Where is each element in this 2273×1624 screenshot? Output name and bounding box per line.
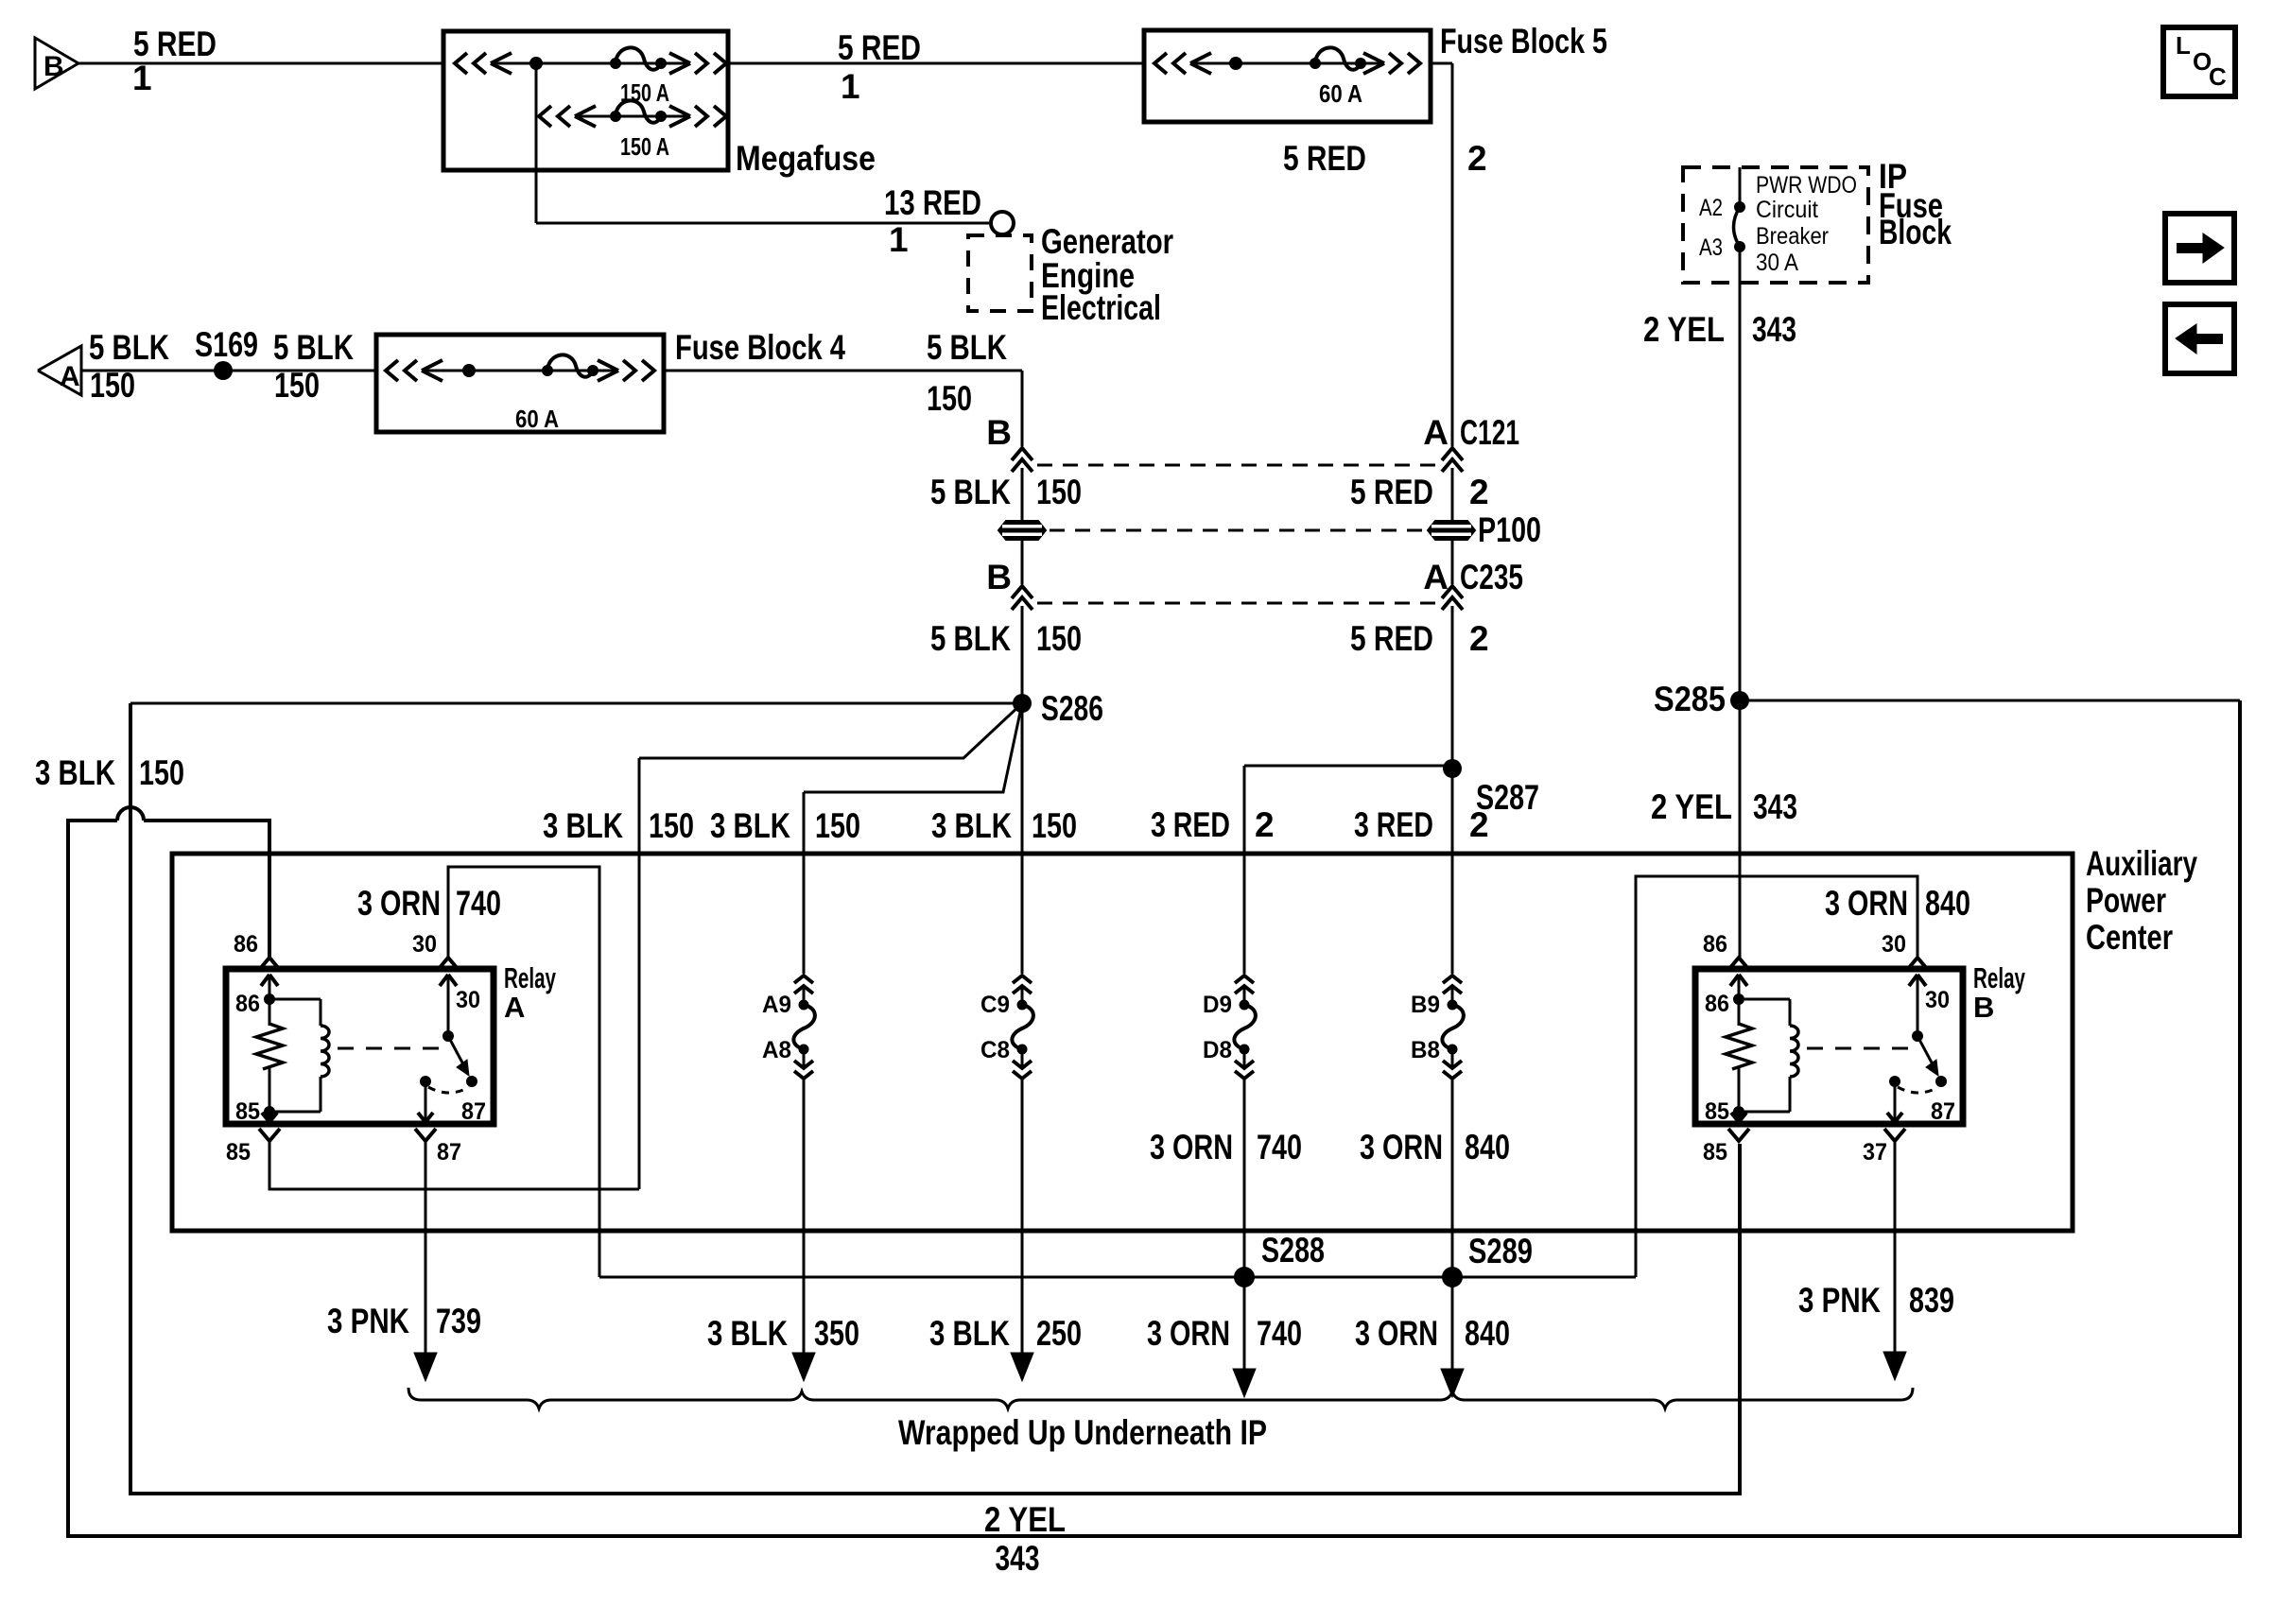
svg-text:A9: A9 xyxy=(762,992,791,1018)
fuse A9/A8 terminal arrow and connector chevron bottom xyxy=(794,1049,813,1079)
relay B dashed actuation link xyxy=(1807,1047,1910,1050)
splice S288 xyxy=(1234,1267,1255,1287)
svg-text:840: 840 xyxy=(1925,884,1970,923)
svg-text:B: B xyxy=(43,51,64,82)
relay A contact 87 with dashed travel arc xyxy=(418,1076,469,1122)
relay A internal labels 86 85 30 87 xyxy=(235,987,486,1125)
wire 5 RED circuit 1 from Megafuse to Fuse Block 5 xyxy=(728,62,1144,65)
relay B pin 30 connector chevron xyxy=(1907,958,1928,970)
svg-text:A: A xyxy=(504,991,525,1024)
splice S289 xyxy=(1442,1267,1463,1287)
label Auxiliary Power Center xyxy=(2086,844,2197,957)
svg-text:C8: C8 xyxy=(980,1037,1010,1063)
connector C121 pin B chevrons xyxy=(1012,448,1032,472)
label 3 RED / 2 (D column) xyxy=(1151,805,1275,844)
svg-text:L: L xyxy=(2176,31,2191,60)
arrow down 3 ORN 740 xyxy=(1233,1369,1256,1397)
label 3 ORN / 840 (above S289) xyxy=(1360,1128,1510,1166)
svg-text:85: 85 xyxy=(226,1139,251,1166)
svg-text:Megafuse: Megafuse xyxy=(736,139,876,178)
svg-text:150: 150 xyxy=(1036,473,1082,511)
svg-text:840: 840 xyxy=(1465,1128,1510,1166)
svg-text:150: 150 xyxy=(139,753,184,792)
svg-text:150: 150 xyxy=(927,379,972,418)
svg-text:3 ORN: 3 ORN xyxy=(1150,1128,1233,1166)
svg-text:D9: D9 xyxy=(1203,992,1232,1018)
svg-text:87: 87 xyxy=(437,1139,461,1166)
svg-text:D8: D8 xyxy=(1203,1037,1232,1063)
svg-text:2 YEL: 2 YEL xyxy=(1651,787,1732,826)
labels 85 / 87 below relay A xyxy=(226,1139,461,1166)
svg-text:3 ORN: 3 ORN xyxy=(1360,1128,1443,1166)
label 5 RED / 2 xyxy=(1283,139,1487,178)
label S289 xyxy=(1468,1232,1533,1270)
label 5 RED / 1 xyxy=(132,25,217,97)
svg-text:B9: B9 xyxy=(1411,992,1440,1018)
label S288 xyxy=(1261,1231,1325,1270)
label 3 BLK / 150 (left rail) xyxy=(35,753,184,792)
svg-text:37: 37 xyxy=(1863,1139,1887,1166)
svg-text:S285: S285 xyxy=(1654,680,1726,718)
fuse C9/C8 terminal arrow and connector chevron bottom xyxy=(1013,1049,1032,1079)
fuse B9/B8 connector chevron and terminal arrow top xyxy=(1443,976,1462,1001)
relay A pin 30 connector chevron xyxy=(438,958,459,970)
svg-text:86: 86 xyxy=(235,991,260,1017)
P100 dashed tie line xyxy=(1050,529,1424,532)
fuse B9/B8 terminal arrow and connector chevron bottom xyxy=(1443,1049,1462,1079)
svg-text:3 PNK: 3 PNK xyxy=(327,1302,409,1340)
wire 3 ORN 840 relay B pin 30 feed xyxy=(1636,876,1917,1277)
label 3 ORN / 840 (relay B feed) xyxy=(1825,884,1970,923)
wire 3 BLK 150 ground bus from S286 left to frame rail xyxy=(130,702,1022,705)
Megafuse box xyxy=(443,31,728,170)
label 150 A (top fuse) xyxy=(620,78,669,107)
megafuse element 150 A top row with terminals xyxy=(455,47,726,74)
svg-text:Generator: Generator xyxy=(1041,222,1173,261)
svg-text:739: 739 xyxy=(436,1302,481,1340)
labels B / A / C121 xyxy=(986,413,1519,452)
svg-text:86: 86 xyxy=(234,931,258,958)
connector C235 pin A chevrons xyxy=(1442,586,1463,610)
label P100 xyxy=(1478,510,1541,549)
relay B name label xyxy=(1973,961,2025,1024)
svg-text:Relay: Relay xyxy=(504,961,556,994)
labels B9 / B8 xyxy=(1411,992,1440,1063)
wire 5 BLK 150 from C235-B to splice S286 xyxy=(1021,606,1024,703)
label S285 xyxy=(1654,680,1726,718)
labels D9 / D8 xyxy=(1203,992,1232,1063)
wire 5 BLK 150 from C121-B to grommet P100 xyxy=(1021,468,1024,521)
labels 3 BLK / 150 (three pairs) xyxy=(543,806,1077,845)
relay A switch common 30 xyxy=(440,975,457,1042)
S286 branch to A column (3 BLK 150) xyxy=(804,703,1022,974)
svg-text:3 PNK: 3 PNK xyxy=(1798,1281,1881,1320)
wire 5 RED circuit 1 from triangle B to Megafuse xyxy=(78,62,443,65)
wire 5 BLK 150 from P100 to C235-B xyxy=(1021,540,1024,584)
splice S285 xyxy=(1730,691,1749,710)
svg-text:30: 30 xyxy=(1882,931,1906,958)
2 YEL 343 loop (right/bottom/left rails to relay A pin 86) xyxy=(68,700,2240,1536)
relay A coil winding xyxy=(269,999,329,1112)
arrow down 3 PNK 739 xyxy=(414,1353,437,1381)
wire 5 RED 2 from C121-A to grommet P100 xyxy=(1451,468,1454,521)
svg-text:3 ORN: 3 ORN xyxy=(357,884,441,923)
wire 2 YEL 343 from S285 to right rail xyxy=(1740,700,2240,702)
svg-text:150 A: 150 A xyxy=(620,132,669,161)
svg-text:3 BLK: 3 BLK xyxy=(35,753,115,792)
connector C121 dashed tie line xyxy=(1037,464,1438,467)
fuse element B9-B8 xyxy=(1442,1000,1464,1055)
svg-text:30 A: 30 A xyxy=(1756,250,1798,276)
labels 85 / 37 below relay B xyxy=(1703,1139,1887,1166)
label 5 RED / 2 (below C235) xyxy=(1350,619,1489,658)
fuse element A9-A8 xyxy=(793,1000,815,1055)
svg-text:P100: P100 xyxy=(1478,510,1541,549)
svg-text:A8: A8 xyxy=(762,1037,791,1063)
S286 branch to ground link (3 BLK 150) xyxy=(639,703,1022,1189)
grommet P100 left xyxy=(998,521,1046,540)
svg-text:C: C xyxy=(2209,62,2227,91)
svg-text:S286: S286 xyxy=(1041,689,1103,728)
svg-text:85: 85 xyxy=(235,1098,260,1125)
svg-text:30: 30 xyxy=(412,931,437,958)
svg-text:86: 86 xyxy=(1705,991,1729,1017)
wire 2 YEL 343 from S285 down to Relay B pin 86 xyxy=(1739,700,1742,958)
relay B pin 85 connector chevron below box xyxy=(1728,1129,1749,1141)
label 13 RED / 1 xyxy=(884,183,981,259)
arrow down 3 ORN 840 xyxy=(1441,1369,1464,1397)
relay B switch common 30 xyxy=(1909,975,1926,1042)
svg-text:150: 150 xyxy=(90,366,135,405)
labels B / A / C235 xyxy=(986,558,1523,596)
svg-text:Block: Block xyxy=(1879,213,1952,251)
relay A resistor xyxy=(256,999,283,1112)
labels bottom wire row 3 BLK 350 / 3 BLK 250 / 3 ORN 740 / 3 ORN 840 xyxy=(707,1314,1510,1353)
wire 3 BLK 350 from fuse A8 to harness arrow xyxy=(803,1079,806,1354)
svg-text:30: 30 xyxy=(456,987,480,1013)
svg-text:2: 2 xyxy=(1469,805,1489,844)
label 5 BLK / 150 (below C235) xyxy=(930,619,1082,658)
splice S169 xyxy=(214,361,233,380)
label Wrapped Up Underneath IP xyxy=(898,1413,1267,1452)
wire 3 ORN 840 from fuse B8 to splice S289 xyxy=(1451,1079,1454,1277)
wire 3 ORN 840 from S289 to harness arrow xyxy=(1451,1277,1454,1370)
relay B coil terminal 85 internal xyxy=(1731,1106,1746,1122)
label Megafuse xyxy=(736,139,876,178)
label PWR WDO Circuit Breaker 30 A xyxy=(1756,172,1857,276)
connector C235 dashed tie line xyxy=(1037,602,1438,605)
relay B internal labels 86 85 30 37 xyxy=(1705,987,1955,1125)
label 60 A (Fuse Block 5) xyxy=(1319,79,1362,108)
svg-text:343: 343 xyxy=(1752,310,1796,349)
relay B coil winding xyxy=(1739,999,1798,1112)
megafuse element 150 A bottom row with terminals xyxy=(539,100,726,127)
svg-text:5 RED: 5 RED xyxy=(1283,139,1366,178)
label Fuse Block 4 xyxy=(675,328,845,367)
svg-text:C121: C121 xyxy=(1460,413,1519,452)
svg-text:150: 150 xyxy=(1036,619,1082,658)
svg-text:Circuit: Circuit xyxy=(1756,197,1818,223)
svg-text:350: 350 xyxy=(814,1314,859,1353)
wire 5 BLK circuit 150 from triangle A to Fuse Block 4 xyxy=(81,370,376,372)
wire relay A pin 87 to harness arrow 3 PNK 739 xyxy=(425,1141,427,1354)
svg-text:740: 740 xyxy=(1257,1314,1302,1353)
svg-text:A2: A2 xyxy=(1699,195,1723,221)
labels C9 / C8 xyxy=(980,992,1010,1063)
connector C121 pin A chevrons xyxy=(1442,448,1463,472)
svg-text:250: 250 xyxy=(1036,1314,1082,1353)
svg-text:A: A xyxy=(1423,558,1449,596)
label IP Fuse Block xyxy=(1879,157,1952,251)
relay B pin 37 connector chevron below box xyxy=(1884,1129,1905,1141)
relay A dashed actuation link xyxy=(338,1047,441,1050)
relay B contact 87 with dashed travel arc xyxy=(1887,1076,1938,1122)
svg-text:5 RED: 5 RED xyxy=(838,28,921,67)
connector triangle B (page reference B) xyxy=(35,38,78,89)
svg-text:150: 150 xyxy=(1032,806,1077,845)
svg-text:839: 839 xyxy=(1909,1281,1954,1320)
relay A pin 87 connector chevron below box xyxy=(415,1129,436,1141)
svg-text:5 BLK: 5 BLK xyxy=(930,473,1011,511)
label 3 ORN / 740 (relay A feed) xyxy=(357,884,501,923)
Auxiliary Power Center box xyxy=(172,854,2073,1231)
svg-text:A3: A3 xyxy=(1699,234,1723,261)
svg-text:1: 1 xyxy=(841,67,860,106)
svg-text:5 RED: 5 RED xyxy=(133,25,217,63)
label 2 YEL / 343 (upper) xyxy=(1643,310,1796,349)
Fuse Block 5 box xyxy=(1144,30,1431,122)
svg-text:Auxiliary: Auxiliary xyxy=(2086,844,2197,883)
fuse element C9-C8 xyxy=(1012,1000,1033,1055)
label Fuse Block 5 xyxy=(1440,22,1607,60)
svg-text:A: A xyxy=(1423,413,1449,452)
svg-text:2: 2 xyxy=(1469,473,1489,511)
svg-text:85: 85 xyxy=(1705,1098,1729,1125)
svg-text:B: B xyxy=(986,413,1012,452)
wire 5 BLK circuit 150 from Fuse Block 4 down to connector C121 pin B xyxy=(664,371,1022,446)
svg-text:343: 343 xyxy=(996,1539,1040,1578)
labels A9 / A8 xyxy=(762,992,791,1063)
svg-text:87: 87 xyxy=(461,1098,486,1125)
svg-text:2 YEL: 2 YEL xyxy=(1643,310,1725,349)
wire bus from relay A 30 through S288 S289 to relay B 30 xyxy=(599,1276,1636,1279)
arrow right legend box xyxy=(2165,214,2234,283)
label 2 YEL / 343 (bottom) xyxy=(984,1500,1066,1578)
svg-text:3 BLK: 3 BLK xyxy=(707,1314,788,1353)
svg-text:1: 1 xyxy=(889,220,909,259)
connector triangle A (page reference A) xyxy=(38,346,81,395)
label 5 RED / 2 (above P100) xyxy=(1350,473,1489,511)
wire 3 RED 2 from S287 to D column xyxy=(1244,766,1452,974)
svg-text:60 A: 60 A xyxy=(515,405,559,433)
svg-text:S288: S288 xyxy=(1261,1231,1325,1270)
wire relay A pin 85 ground link to S286 xyxy=(269,1141,639,1189)
svg-text:Wrapped Up Underneath IP: Wrapped Up Underneath IP xyxy=(898,1413,1267,1452)
svg-text:Electrical: Electrical xyxy=(1041,288,1161,327)
relay B switch blade xyxy=(1917,1036,1947,1087)
svg-text:A: A xyxy=(60,361,80,392)
svg-text:Center: Center xyxy=(2086,918,2173,957)
svg-text:30: 30 xyxy=(1925,987,1950,1013)
svg-text:Fuse Block 4: Fuse Block 4 xyxy=(675,328,845,367)
label 5 BLK / 150 (above P100) xyxy=(930,473,1082,511)
label 60 A (Fuse Block 4) xyxy=(515,405,559,433)
wire 3 ORN 740 from fuse D8 to splice S288 xyxy=(1243,1079,1246,1277)
relay B coil terminal 86 internal xyxy=(1730,975,1747,1005)
wire 13 RED circuit 1 from megafuse to generator ring terminal xyxy=(536,63,989,223)
wire 5 RED circuit 2 from Fuse Block 5 down to connector C121 pin A xyxy=(1431,63,1452,446)
svg-text:2: 2 xyxy=(1255,805,1275,844)
arrow down 3 BLK 250 xyxy=(1011,1353,1033,1381)
svg-text:Power: Power xyxy=(2086,881,2166,920)
wire 3 BLK 250 from fuse C8 to harness arrow xyxy=(1021,1079,1024,1354)
fuse 60 A in Fuse Block 4 xyxy=(386,354,654,381)
svg-text:Relay: Relay xyxy=(1973,961,2025,994)
svg-text:2: 2 xyxy=(1467,139,1487,178)
relay B box xyxy=(1695,969,1963,1124)
harness brace Wrapped Up Underneath IP xyxy=(408,1388,1913,1408)
IP fuse block dashed box xyxy=(1683,167,1868,283)
label 3 PNK / 839 xyxy=(1798,1281,1954,1320)
label 2 YEL / 343 (at S285) xyxy=(1651,787,1797,826)
svg-text:13 RED: 13 RED xyxy=(884,183,981,222)
wire 2 YEL circuit 343 from circuit breaker down to S285 xyxy=(1739,283,1742,700)
svg-text:Breaker: Breaker xyxy=(1756,223,1829,250)
fuse D9/D8 connector chevron and terminal arrow top xyxy=(1235,976,1254,1001)
label 5 RED / 1 (second) xyxy=(838,28,921,106)
svg-text:3 ORN: 3 ORN xyxy=(1825,884,1908,923)
wire 3 ORN 740 from S288 to harness arrow xyxy=(1243,1277,1246,1370)
svg-text:85: 85 xyxy=(1703,1139,1727,1166)
relay A coil terminal 85 internal xyxy=(262,1106,277,1122)
label S286 xyxy=(1041,689,1103,728)
svg-text:343: 343 xyxy=(1753,787,1797,826)
svg-text:5 RED: 5 RED xyxy=(1350,619,1433,658)
labels 86 / 30 outside relay B xyxy=(1703,931,1906,958)
svg-text:740: 740 xyxy=(456,884,501,923)
relay A pin 85 connector chevron below box xyxy=(259,1129,280,1141)
svg-text:740: 740 xyxy=(1257,1128,1302,1166)
label 3 RED / 2 (B column) xyxy=(1354,805,1489,844)
label S169 xyxy=(195,325,258,364)
wire relay B pin 37 to harness arrow 3 PNK 839 xyxy=(1894,1141,1897,1353)
wire 3 ORN 740 relay A pin 30 feed xyxy=(448,867,599,1277)
generator engine electrical dashed box xyxy=(968,235,1032,311)
fuse C9/C8 connector chevron and terminal arrow top xyxy=(1013,976,1032,1001)
fuse A9/A8 connector chevron and terminal arrow top xyxy=(794,976,813,1001)
connector C235 pin B chevrons xyxy=(1012,586,1032,610)
svg-text:5 BLK: 5 BLK xyxy=(273,328,354,367)
label 5 BLK / 150 (left) xyxy=(89,328,169,405)
label 5 BLK / 150 (at C121) xyxy=(927,328,1007,418)
svg-text:840: 840 xyxy=(1465,1314,1510,1353)
relay A box xyxy=(226,969,494,1124)
fuse element D9-D8 xyxy=(1234,1000,1256,1055)
label Generator Engine Electrical xyxy=(1041,222,1173,327)
svg-text:B: B xyxy=(1973,991,1994,1024)
wire 5 RED 2 from C235-A to splice S287 xyxy=(1451,606,1454,769)
relay A switch blade xyxy=(448,1036,477,1087)
relay A name label xyxy=(504,961,556,1024)
relay A pin 86 connector chevron xyxy=(259,958,280,970)
wire 3 RED 2 from S287 down to fuse B9 xyxy=(1451,769,1454,974)
relay B resistor xyxy=(1726,999,1752,1112)
svg-text:PWR WDO: PWR WDO xyxy=(1756,172,1857,199)
svg-text:3 BLK: 3 BLK xyxy=(931,806,1012,845)
svg-text:3 ORN: 3 ORN xyxy=(1355,1314,1438,1353)
wire 5 RED 2 from P100 to C235-A xyxy=(1451,540,1454,584)
fuse D9/D8 terminal arrow and connector chevron bottom xyxy=(1235,1049,1254,1079)
svg-text:3 ORN: 3 ORN xyxy=(1147,1314,1230,1353)
svg-text:5 BLK: 5 BLK xyxy=(89,328,169,367)
svg-text:3 RED: 3 RED xyxy=(1354,805,1433,844)
svg-text:3 BLK: 3 BLK xyxy=(543,806,623,845)
arrow down 3 PNK 839 xyxy=(1883,1352,1906,1380)
svg-text:2 YEL: 2 YEL xyxy=(984,1500,1066,1539)
splice S287 xyxy=(1443,759,1462,778)
labels 86 / 30 outside relay A xyxy=(234,931,437,958)
label A2 / A3 xyxy=(1699,195,1723,261)
wire 3 BLK 150 from S286 down to fuse C9 xyxy=(1021,703,1024,974)
Fuse Block 4 box xyxy=(376,335,664,432)
arrow down 3 BLK 350 xyxy=(792,1353,815,1381)
svg-text:150: 150 xyxy=(815,806,860,845)
svg-text:87: 87 xyxy=(1931,1098,1955,1125)
svg-text:5 BLK: 5 BLK xyxy=(927,328,1007,367)
ring terminal at generator xyxy=(991,212,1014,234)
svg-text:3 BLK: 3 BLK xyxy=(929,1314,1010,1353)
svg-text:C235: C235 xyxy=(1460,558,1523,596)
svg-text:C9: C9 xyxy=(980,992,1010,1018)
frame ground loop 3 BLK 150 (left/bottom rails to relay B pin 85) xyxy=(130,703,1740,1494)
label 150 A (bottom fuse) xyxy=(620,132,669,161)
label 5 BLK / 150 (right of S169) xyxy=(273,328,354,405)
svg-text:150: 150 xyxy=(649,806,694,845)
svg-text:S169: S169 xyxy=(195,325,258,364)
svg-text:S289: S289 xyxy=(1468,1232,1533,1270)
svg-text:1: 1 xyxy=(132,59,152,97)
label 3 ORN / 740 (above S288) xyxy=(1150,1128,1302,1166)
relay B pin 86 connector chevron xyxy=(1728,958,1749,970)
label S287 xyxy=(1476,778,1539,817)
svg-text:Fuse Block 5: Fuse Block 5 xyxy=(1440,22,1607,60)
circuit breaker PWR WDO 30 A pins A2 A3 xyxy=(1734,167,1746,283)
svg-text:86: 86 xyxy=(1703,931,1727,958)
svg-text:150: 150 xyxy=(274,366,320,405)
grommet P100 right xyxy=(1428,521,1475,540)
svg-text:3 BLK: 3 BLK xyxy=(710,806,790,845)
LOC legend box xyxy=(2163,27,2235,96)
svg-text:B: B xyxy=(986,558,1012,596)
label 3 PNK / 739 xyxy=(327,1302,481,1340)
splice S286 xyxy=(1013,694,1032,713)
svg-text:5 BLK: 5 BLK xyxy=(930,619,1011,658)
fuse 60 A in Fuse Block 5 xyxy=(1154,47,1420,74)
svg-text:60 A: 60 A xyxy=(1319,79,1362,108)
arrow left legend box xyxy=(2165,304,2234,373)
svg-text:B8: B8 xyxy=(1411,1037,1440,1063)
svg-text:2: 2 xyxy=(1469,619,1489,658)
svg-text:3 RED: 3 RED xyxy=(1151,805,1230,844)
svg-text:5 RED: 5 RED xyxy=(1350,473,1433,511)
relay A coil terminal 86 internal xyxy=(261,975,278,1005)
